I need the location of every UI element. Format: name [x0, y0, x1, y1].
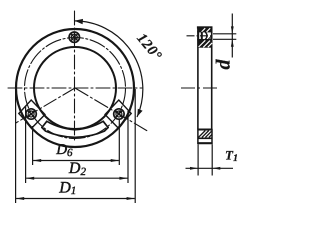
D1 extension line right — [134, 89, 136, 203]
svg-text:120°: 120° — [133, 31, 165, 65]
slot left end cap — [42, 121, 47, 127]
radial centerline right (330deg) — [75, 88, 147, 131]
D1 dimension line — [16, 198, 135, 200]
pitch circle D2 (dash-dot) — [25, 38, 126, 139]
screw pocket diamond right — [105, 100, 131, 128]
slot right outer edge — [75, 128, 108, 138]
screw head slot line — [201, 32, 203, 40]
slot left inner edge — [47, 121, 75, 130]
D2 dimension line — [26, 177, 127, 179]
120 degree arc — [75, 21, 143, 117]
arc arrowhead top — [75, 19, 84, 24]
svg-text:T1: T1 — [225, 147, 238, 164]
T1 extension line left — [197, 144, 199, 175]
D6 extension line right — [118, 120, 120, 166]
outer circle D1 — [16, 29, 134, 147]
horizontal centerline — [8, 87, 142, 89]
svg-text:D6: D6 — [55, 142, 73, 159]
screw hole lower edge — [197, 39, 212, 41]
slot right end cap — [103, 121, 108, 127]
hatching bottom block — [198, 131, 212, 138]
svg-text:d: d — [213, 59, 235, 70]
bottom slot section block top bar — [198, 129, 213, 131]
screw lower-right head — [114, 109, 124, 119]
screw pocket diamond left — [19, 100, 45, 128]
D1 extension line left — [15, 89, 17, 203]
bottom block bottom bar — [197, 142, 212, 144]
slot right inner edge — [75, 121, 103, 130]
slot left outer edge — [42, 128, 75, 138]
D2 extension line right — [127, 111, 129, 183]
arc arrowhead bottom — [137, 109, 142, 117]
D2 arrow right — [119, 177, 127, 180]
top rim bottom edge (bore line) — [198, 46, 213, 48]
svg-text:D2: D2 — [68, 160, 87, 178]
screw hole upper edge — [197, 31, 212, 33]
T1 arrow right — [212, 167, 220, 170]
d dimension line vertical — [231, 14, 233, 58]
screw head left edge — [198, 32, 200, 39]
screw lower-left head — [26, 109, 36, 119]
side view body right edge — [211, 27, 213, 130]
screw top head — [69, 32, 79, 42]
svg-text:D1: D1 — [58, 180, 76, 198]
D2 arrow left — [26, 177, 34, 180]
D6 arrow right — [111, 159, 119, 162]
D2 extension line left — [25, 106, 27, 183]
bottom block side edges — [198, 129, 212, 144]
side view body left edge — [197, 27, 199, 130]
T1 dimension line — [186, 167, 234, 169]
side view horizontal centerline — [181, 87, 220, 89]
d leader upper — [213, 33, 236, 35]
side view body top edge — [197, 26, 213, 28]
screw dome end — [205, 32, 207, 39]
D6 extension line left — [32, 126, 34, 165]
d leader lower — [213, 38, 236, 40]
D1 arrow right — [127, 197, 135, 200]
hatching top rim (dark with white slashes) — [198, 28, 212, 32]
T1 arrow left — [190, 167, 198, 170]
screw axis line — [187, 35, 214, 37]
d arrow upper — [231, 26, 234, 34]
bore circle — [34, 47, 116, 129]
radial centerline left (210deg) — [16, 88, 75, 123]
D1 arrow left — [16, 197, 24, 200]
vertical centerline — [74, 11, 76, 143]
D6 dimension line — [33, 160, 119, 162]
T1 extension line right — [211, 144, 213, 175]
hatching right of screw tip — [208, 36, 212, 40]
d arrow lower — [231, 39, 234, 47]
D6 arrow left — [33, 159, 41, 162]
bottom block mid bar — [198, 137, 213, 139]
